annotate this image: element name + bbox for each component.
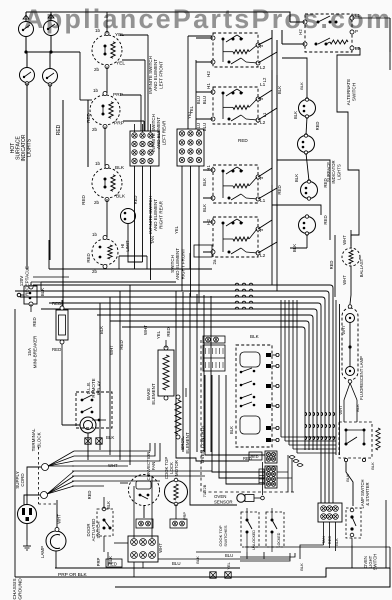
svg-text:BLK: BLK [106,435,114,440]
svg-text:BALLAST: BALLAST [359,258,364,277]
svg-text:2b: 2b [94,67,100,72]
svg-text:YEL: YEL [226,561,231,569]
svg-text:AppliancePartsPros.com: AppliancePartsPros.com [24,4,390,34]
svg-text:BLK: BLK [250,334,260,339]
svg-text:BLK: BLK [299,82,304,90]
svg-text:BLU: BLU [196,96,201,104]
svg-text:RED: RED [329,261,334,270]
svg-text:RED: RED [52,301,61,306]
svg-text:WHT: WHT [109,345,114,355]
svg-text:RED: RED [277,185,282,194]
svg-text:LEFT REAR: LEFT REAR [161,120,166,145]
svg-text:BLK: BLK [293,111,298,119]
svg-text:RED: RED [81,194,86,204]
svg-text:RED: RED [166,327,171,336]
svg-text:LOCKED: LOCKED [277,532,281,547]
svg-text:SWITCH: SWITCH [352,83,357,101]
svg-text:TERMINAL: TERMINAL [31,428,36,451]
svg-text:LIGHTS: LIGHTS [27,138,33,157]
svg-text:L1: L1 [262,112,267,117]
svg-text:120V: 120V [19,276,24,287]
svg-text:BLK: BLK [115,165,125,171]
svg-text:RED: RED [87,491,92,500]
svg-text:2b: 2b [94,200,100,205]
svg-text:P: P [260,176,263,182]
svg-text:PRP OR BLK: PRP OR BLK [58,572,88,578]
svg-text:SENSOR: SENSOR [214,500,233,505]
svg-text:RED: RED [315,122,320,131]
svg-text:RED: RED [133,196,138,205]
svg-text:WHT: WHT [57,514,62,524]
svg-text:BLK: BLK [195,556,200,564]
svg-text:BLK: BLK [345,474,350,482]
svg-text:& STARTER: & STARTER [365,482,370,505]
svg-text:YEL: YEL [116,61,125,67]
svg-text:RED: RED [56,124,62,135]
svg-text:WHT: WHT [342,275,347,285]
svg-text:71/72B: 71/72B [202,484,207,497]
svg-text:H2: H2 [206,71,211,77]
svg-text:L1: L1 [355,13,361,18]
svg-text:L2: L2 [262,77,267,82]
svg-text:1b: 1b [92,232,97,237]
svg-text:SWITCHES: SWITCHES [223,525,228,546]
svg-text:LIGHTS: LIGHTS [336,164,341,180]
svg-text:RED: RED [251,455,259,459]
svg-text:2b: 2b [92,127,98,132]
svg-text:PRP: PRP [114,121,124,127]
svg-text:RED: RED [52,347,61,352]
svg-text:1b: 1b [93,88,99,93]
svg-text:UNLOCKED: UNLOCKED [252,530,256,550]
svg-text:L1: L1 [260,198,266,204]
svg-text:CORD: CORD [20,473,25,487]
svg-text:H1: H1 [206,83,211,89]
svg-text:2a: 2a [212,259,217,264]
svg-text:BLOCK: BLOCK [37,432,42,447]
svg-text:BLK: BLK [370,462,375,470]
svg-text:RED: RED [238,138,248,143]
svg-text:BLK: BLK [229,426,234,434]
svg-text:BLK: BLK [106,501,111,509]
svg-text:RED: RED [86,112,91,122]
svg-text:ELEMENT: ELEMENT [151,383,156,405]
svg-text:GROUND: GROUND [17,578,23,600]
svg-text:L2: L2 [260,253,266,259]
svg-text:RIGHT FRONT: RIGHT FRONT [180,248,185,279]
svg-text:RED: RED [32,317,37,326]
svg-text:P: P [260,44,263,50]
svg-text:BLK: BLK [202,204,207,212]
svg-text:BLU: BLU [202,96,207,105]
svg-text:RED: RED [119,340,124,349]
svg-text:RED: RED [108,562,117,567]
svg-text:P: P [260,228,263,234]
svg-text:WHT: WHT [108,463,118,468]
svg-text:OVEN: OVEN [214,494,226,499]
svg-text:L2: L2 [260,120,266,126]
svg-text:WHT: WHT [158,543,163,553]
svg-text:MOTOR: MOTOR [174,460,179,476]
svg-text:ELEMENT: ELEMENT [185,432,190,454]
svg-text:BLK: BLK [277,86,282,94]
svg-text:MINI-BREAKER: MINI-BREAKER [33,335,38,368]
svg-text:FLUORESCENT LAMP: FLUORESCENT LAMP [359,356,364,400]
svg-text:RIGHT REAR: RIGHT REAR [158,200,163,228]
svg-text:1b: 1b [95,28,101,33]
svg-text:TAN: TAN [150,236,155,244]
svg-text:RED: RED [323,215,328,224]
svg-text:BLK: BLK [202,178,207,186]
svg-text:YEL: YEL [189,105,194,114]
svg-text:BLU: BLU [196,123,201,131]
svg-text:BLK: BLK [99,326,104,334]
svg-text:YEL: YEL [174,225,179,234]
svg-text:BLK: BLK [294,174,299,182]
svg-text:BLK: BLK [116,194,126,200]
svg-text:WHT: WHT [143,325,148,335]
svg-text:P: P [355,29,358,34]
svg-text:BLU: BLU [172,561,181,566]
svg-text:FAN: FAN [151,462,156,470]
svg-text:ALTERNATE: ALTERNATE [346,79,351,105]
svg-text:BLU: BLU [225,553,233,558]
svg-text:LEFT FRONT: LEFT FRONT [158,61,163,89]
svg-text:LAMP: LAMP [40,546,45,558]
svg-text:WHT: WHT [342,235,347,245]
svg-text:15A: 15A [27,348,32,356]
svg-text:RELAY: RELAY [96,381,101,395]
svg-text:BLK: BLK [355,404,360,412]
svg-text:L2: L2 [260,65,266,71]
svg-text:CHASSIS: CHASSIS [12,578,18,599]
svg-text:BLK: BLK [334,538,339,546]
svg-text:PRP: PRP [96,557,101,566]
svg-text:YEL: YEL [156,330,161,339]
svg-text:1b: 1b [95,161,101,166]
svg-text:H2: H2 [298,29,303,35]
svg-text:LIMIT: LIMIT [125,240,130,252]
svg-text:BLK: BLK [299,563,304,571]
svg-text:2b: 2b [92,269,97,274]
svg-text:RECEPTACLE: RECEPTACLE [25,266,30,296]
svg-text:RED: RED [86,253,91,262]
svg-text:BLU: BLU [202,123,207,132]
svg-text:WHT: WHT [341,325,346,335]
svg-text:WHT: WHT [338,405,343,415]
